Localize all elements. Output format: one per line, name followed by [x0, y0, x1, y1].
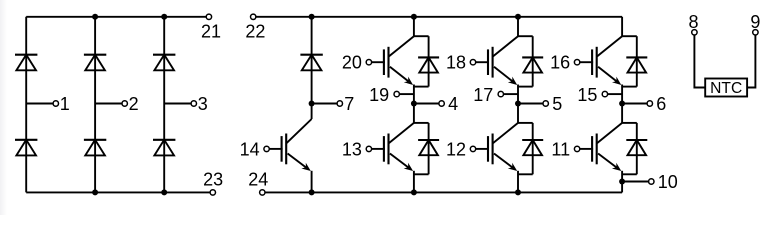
- wire: bottom IGBT collector drop (phase 5): [517, 104, 519, 123]
- wire: rectifier phase leg 2: [94, 17, 96, 193]
- wire: bottom collector bus (phase 4): [414, 122, 429, 124]
- wire: top IGBT collector drop (phase 4): [413, 17, 415, 36]
- terminal 13 (bottom gate): [342, 139, 372, 159]
- svg-text:19: 19: [369, 85, 389, 105]
- wire: top freewheel diode branch (phase 4): [428, 36, 430, 86]
- svg-text:6: 6: [656, 94, 666, 114]
- svg-text:18: 18: [446, 53, 466, 73]
- wire: rectifier DC- bottom rail: [26, 191, 210, 193]
- terminal 12 (bottom gate): [446, 139, 476, 159]
- svg-text:20: 20: [342, 53, 362, 73]
- diode chopper (node 7 to DC+): [300, 55, 322, 71]
- diode rectifier bottom (DC- to phase 2): [84, 140, 106, 156]
- diode rectifier top (phase 2 to DC+): [84, 55, 106, 71]
- wire: inverter DC- bottom rail: [265, 191, 622, 193]
- transistor top IGBT (gate 18, phase 5): [476, 36, 518, 85]
- wire: stub auxiliary emitter 15: [607, 93, 622, 95]
- svg-text:NTC: NTC: [710, 80, 742, 97]
- transistor chopper IGBT (gate 14): [269, 119, 311, 171]
- junction (chopper leg / top rail): [309, 14, 315, 20]
- wire: top emitter bus (phase 4): [414, 86, 429, 88]
- junction node 4: [411, 101, 417, 107]
- svg-text:16: 16: [550, 53, 570, 73]
- diode freewheel bottom (phase 4): [418, 140, 439, 155]
- diode rectifier top (phase 1 to DC+): [15, 55, 37, 71]
- wire: top emitter drop (phase 4): [413, 85, 415, 104]
- junction (top rail): [92, 14, 98, 20]
- terminal 3 (AC input): [191, 94, 208, 114]
- wire: bottom emitter drop (phase 5): [517, 171, 519, 193]
- svg-text:9: 9: [750, 12, 760, 32]
- transistor bottom IGBT (gate 12, phase 5): [476, 123, 518, 171]
- terminal 14 (chopper gate): [240, 139, 270, 159]
- junction (chopper leg / bottom rail): [309, 189, 315, 195]
- wire: stub node 4: [414, 103, 439, 105]
- svg-text:7: 7: [344, 94, 354, 114]
- wire: bottom collector bus (phase 5): [518, 122, 533, 124]
- svg-text:12: 12: [446, 139, 466, 159]
- wire: inverter DC+ top rail: [256, 16, 622, 18]
- svg-text:23: 23: [203, 169, 223, 189]
- wire: top emitter drop (phase 5): [517, 85, 519, 104]
- terminal 6 (AC output): [647, 94, 666, 114]
- wire: top IGBT collector drop (phase 5): [517, 17, 519, 36]
- svg-text:4: 4: [448, 94, 458, 114]
- junction (phase leg / bottom rail): [515, 189, 521, 195]
- transistor top IGBT (gate 16, phase 6): [580, 36, 622, 85]
- junction node 7: [309, 101, 315, 107]
- wire: bottom freewheel diode branch (phase 6): [636, 123, 638, 174]
- wire: top collector bus (phase 5): [518, 35, 533, 37]
- terminal 16 (top gate): [550, 53, 580, 73]
- wire: bottom emitter drop (phase 6): [621, 171, 623, 193]
- diode freewheel top (phase 4): [418, 57, 439, 72]
- wire: top freewheel diode branch (phase 5): [532, 36, 534, 86]
- terminal 23 (rectifier DC-): [203, 169, 223, 195]
- wire: chopper collector drop: [311, 104, 313, 120]
- diode freewheel bottom (phase 5): [522, 140, 543, 155]
- svg-text:24: 24: [248, 169, 268, 189]
- transistor bottom IGBT (gate 13, phase 4): [372, 123, 414, 171]
- svg-text:15: 15: [577, 85, 597, 105]
- junction (bottom rail): [92, 189, 98, 195]
- transistor bottom IGBT (gate 11, phase 6): [580, 123, 622, 171]
- wire: top emitter drop (phase 6): [621, 85, 623, 104]
- junction node 10: [619, 179, 625, 185]
- wire: top IGBT collector drop (phase 6): [621, 17, 623, 36]
- wire: bottom emitter drop (phase 4): [413, 171, 415, 193]
- diode rectifier top (phase 3 to DC+): [153, 55, 175, 71]
- transistor top IGBT (gate 20, phase 4): [372, 36, 414, 85]
- wire: stub node 3: [164, 103, 191, 105]
- junction (phase leg / top rail): [515, 14, 521, 20]
- diode rectifier bottom (DC- to phase 1): [15, 140, 37, 156]
- svg-text:10: 10: [658, 172, 678, 192]
- diode rectifier bottom (DC- to phase 3): [153, 140, 175, 156]
- wire: stub node 1: [26, 103, 53, 105]
- terminal 24 (inverter DC-): [248, 169, 268, 195]
- svg-text:2: 2: [129, 94, 139, 114]
- wire: stub node 6: [622, 103, 647, 105]
- wire: stub node 5: [518, 103, 543, 105]
- thermistor NTC: [705, 79, 747, 98]
- wire: bottom emitter bus (phase 6): [622, 173, 637, 175]
- wire: top freewheel diode branch (phase 6): [636, 36, 638, 86]
- wire: bottom freewheel diode branch (phase 5): [532, 123, 534, 174]
- wire: stub auxiliary emitter 19: [399, 93, 414, 95]
- svg-text:21: 21: [201, 22, 221, 42]
- terminal 7 (chopper node): [337, 94, 354, 114]
- diode freewheel top (phase 5): [522, 57, 543, 72]
- wire: stub node 2: [95, 103, 122, 105]
- junction (phase leg / bottom rail): [411, 189, 417, 195]
- wire: chopper upper leg: [311, 17, 313, 104]
- svg-text:1: 1: [60, 94, 70, 114]
- wire: rectifier DC+ top rail: [26, 16, 206, 18]
- wire: top emitter bus (phase 5): [518, 86, 533, 88]
- terminal 19 (aux emitter): [369, 85, 399, 105]
- svg-text:8: 8: [688, 12, 698, 32]
- wire: rectifier phase leg 3: [163, 17, 165, 193]
- diode freewheel top (phase 6): [626, 57, 647, 72]
- svg-text:3: 3: [198, 94, 208, 114]
- wire: bottom collector bus (phase 6): [622, 122, 637, 124]
- wire: bottom emitter bus (phase 4): [414, 173, 429, 175]
- wire: bottom IGBT collector drop (phase 4): [413, 104, 415, 123]
- wire: NTC lead 8: [694, 35, 705, 88]
- terminal 5 (AC output): [543, 94, 562, 114]
- diode freewheel bottom (phase 6): [626, 140, 647, 155]
- wire: stub node 7: [312, 103, 338, 105]
- junction node 5: [515, 101, 521, 107]
- wire: NTC lead 9: [747, 35, 755, 88]
- svg-text:13: 13: [342, 139, 362, 159]
- wire: bottom emitter bus (phase 5): [518, 173, 533, 175]
- wire: top collector bus (phase 6): [622, 35, 637, 37]
- svg-text:22: 22: [245, 22, 265, 42]
- terminal 10 (inverter DC-): [649, 172, 678, 192]
- wire: top emitter bus (phase 6): [622, 86, 637, 88]
- wire: top collector bus (phase 4): [414, 35, 429, 37]
- terminal 18 (top gate): [446, 53, 476, 73]
- terminal 20 (top gate): [342, 53, 372, 73]
- wire: stub auxiliary emitter 17: [503, 93, 518, 95]
- junction node 6: [619, 101, 625, 107]
- junction (top rail): [161, 14, 167, 20]
- svg-text:5: 5: [552, 94, 562, 114]
- junction (bottom rail): [161, 189, 167, 195]
- terminal 1 (AC input): [53, 94, 70, 114]
- wire: bottom IGBT collector drop (phase 6): [621, 104, 623, 123]
- wire: stub node 10: [622, 181, 649, 183]
- wire: rectifier phase leg 1: [25, 17, 27, 193]
- terminal 21 (rectifier DC+): [201, 14, 221, 42]
- wire: chopper emitter drop: [311, 171, 313, 193]
- terminal 22 (inverter DC+): [245, 14, 265, 42]
- terminal 8 (NTC): [688, 12, 698, 35]
- svg-text:11: 11: [551, 139, 570, 159]
- terminal 11 (bottom gate): [551, 139, 579, 159]
- terminal 9 (NTC): [750, 12, 760, 35]
- junction (phase leg / top rail): [411, 14, 417, 20]
- svg-text:17: 17: [473, 85, 493, 105]
- terminal 15 (aux emitter): [577, 85, 607, 105]
- terminal 17 (aux emitter): [473, 85, 503, 105]
- svg-text:14: 14: [240, 139, 260, 159]
- terminal 4 (AC output): [439, 94, 458, 114]
- terminal 2 (AC input): [122, 94, 139, 114]
- wire: bottom freewheel diode branch (phase 4): [428, 123, 430, 174]
